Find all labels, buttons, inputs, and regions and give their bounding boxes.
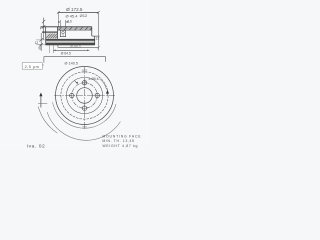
dimension line D172.5 bbox=[57, 11, 100, 14]
tick at hat line left end bbox=[40, 27, 42, 29]
section: ring mid line bbox=[46, 41, 95, 43]
ticks on center line top bbox=[82, 69, 87, 71]
bolt hole W bbox=[70, 93, 74, 97]
svg-text:12: 12 bbox=[96, 36, 100, 40]
section: ring bottom line bbox=[46, 44, 95, 46]
section: right outer edge bbox=[94, 36, 96, 45]
bolt hole S bbox=[82, 106, 86, 110]
svg-text:12: 12 bbox=[35, 41, 39, 45]
bottom arc r41 bbox=[47, 112, 120, 140]
section arrow (left of circle) bbox=[40, 93, 42, 108]
svg-text:2,5 µm: 2,5 µm bbox=[25, 64, 40, 69]
front view: PCD circle (dash-dot) bbox=[72, 83, 97, 108]
front view: horizontal center line bbox=[54, 95, 115, 97]
bottom dimension line 1 (corner) bbox=[58, 45, 100, 49]
section: friction ring lower plate (dark band) bbox=[46, 43, 95, 45]
front view: vertical center line bbox=[84, 67, 86, 130]
svg-text:Ø 45.4: Ø 45.4 bbox=[65, 14, 78, 19]
extension line right (long, shared) bbox=[97, 12, 99, 50]
section: left outer edge bbox=[45, 27, 47, 45]
leader to top hole bbox=[85, 81, 87, 83]
bottom dimension line 2 (arrowed) bbox=[53, 49, 89, 51]
front view: center bore bbox=[77, 88, 93, 104]
ticks bottom center line bbox=[82, 126, 86, 128]
svg-text:MOUNTING FACE: MOUNTING FACE bbox=[102, 135, 141, 139]
svg-text:WEIGHT 4,87 kg: WEIGHT 4,87 kg bbox=[102, 144, 138, 148]
section: wheel bolt hole circle bbox=[62, 31, 65, 34]
rotation flag (right) bbox=[106, 90, 109, 94]
section: friction ring upper plate (dark band) bbox=[46, 39, 95, 41]
front view: hat circle bbox=[66, 77, 102, 113]
svg-text:Ø 64.5: Ø 64.5 bbox=[61, 51, 71, 55]
section: hat left wall bbox=[57, 27, 59, 39]
vertical dimension line 45.4 (left) bbox=[40, 18, 46, 52]
front view: friction inner circle bbox=[61, 72, 108, 119]
svg-text:Iva. 02: Iva. 02 bbox=[27, 144, 46, 150]
section: left flange step line bbox=[42, 31, 58, 33]
section: hat right wall bbox=[91, 27, 93, 36]
svg-text:4-Ø6,6: 4-Ø6,6 bbox=[88, 77, 98, 81]
bolt hole E bbox=[95, 93, 99, 97]
small arrow to PCD bbox=[75, 81, 78, 84]
section: hat top line bbox=[41, 26, 92, 28]
section: left flange hatch bbox=[46, 33, 58, 38]
left thickness dimension TH bbox=[36, 40, 45, 45]
roughness note box bbox=[22, 63, 42, 70]
svg-text:6.6: 6.6 bbox=[67, 19, 72, 23]
front view: outer circle bbox=[56, 67, 114, 125]
extension line left (hat edge) bbox=[57, 12, 59, 27]
leader to friction circle with arrowhead bbox=[100, 79, 107, 90]
section: wheel bolt hole box bbox=[60, 30, 65, 36]
svg-text:Ø12: Ø12 bbox=[80, 13, 88, 18]
svg-text:Ø 140.5: Ø 140.5 bbox=[65, 61, 79, 65]
bottom long line B with drops bbox=[44, 57, 106, 63]
bolt hole N bbox=[70, 81, 100, 111]
bolt hole diameter dimension 6.6 bbox=[58, 20, 69, 27]
section: hat top plate hatch bbox=[58, 27, 92, 30]
svg-text:Ø 172.5: Ø 172.5 bbox=[66, 7, 83, 12]
bottom arc r32.6 bbox=[53, 102, 116, 128]
bolt hole crosshairs bbox=[69, 80, 101, 112]
extension ticks below ring bbox=[49, 45, 51, 53]
section: right step line bbox=[92, 35, 100, 37]
diagonal leader bottom-left bbox=[38, 107, 57, 134]
svg-text:MIN. TH. 13,45: MIN. TH. 13,45 bbox=[102, 139, 134, 143]
